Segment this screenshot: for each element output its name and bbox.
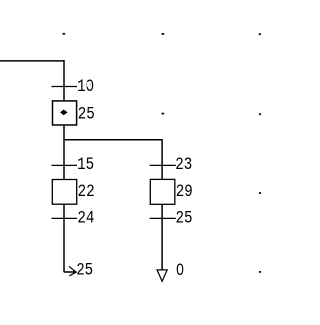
sink arrow (open triangle) (157, 270, 167, 281)
step box 29 (150, 179, 175, 204)
grid dot (260,193) (259, 192, 262, 194)
transition tick 25 (right) (150, 217, 176, 219)
grid dot (163,34) (162, 33, 165, 35)
transition tick 10 (52, 86, 78, 88)
transition tick 24 (52, 217, 78, 219)
grid dot (163,114) (162, 113, 165, 115)
wire: right column vertical (161, 139, 163, 270)
grid dot (260,34) (259, 33, 262, 35)
svg-text:25: 25 (78, 105, 95, 124)
svg-text:10: 10 (77, 78, 94, 97)
step box 25 (active, with token) (53, 101, 77, 125)
svg-text:23: 23 (175, 156, 192, 175)
svg-text:22: 22 (78, 183, 95, 202)
svg-text:15: 15 (77, 156, 94, 175)
label 0 (176, 262, 184, 281)
transition tick 23 (150, 164, 176, 166)
wire: left column vertical (63, 60, 65, 272)
wire: OR-divergence horizontal branch (64, 139, 162, 141)
step box 22 (52, 180, 76, 205)
svg-text:0: 0 (176, 262, 184, 281)
transition tick 15 (52, 164, 78, 166)
svg-text:25: 25 (176, 210, 193, 229)
label 10 (77, 78, 94, 97)
svg-text:24: 24 (77, 210, 94, 229)
grid dot (260,114) (259, 113, 262, 115)
grid dot (64,34) (63, 33, 66, 35)
wire: top horizontal entry (0, 60, 65, 62)
grid dot (260,272) (259, 271, 262, 273)
svg-text:25: 25 (76, 262, 93, 281)
token dot in step 25 (60, 110, 68, 116)
svg-text:29: 29 (176, 183, 193, 202)
jump arrow to step 25 (64, 266, 76, 276)
